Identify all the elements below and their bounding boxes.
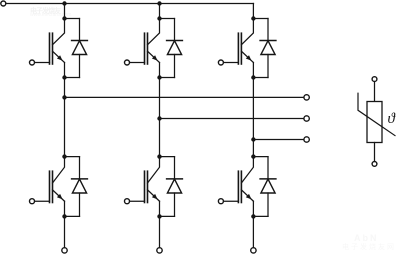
junction: phase W tap: [251, 137, 255, 141]
transistor Q5 (IGBT): [145, 171, 160, 202]
wire: phase drop, phase 1 mid: [64, 78, 66, 157]
diode D6: [260, 157, 276, 217]
wire: diode D4 cathode jog: [65, 156, 80, 158]
wire: emitter lead of Q3: [252, 63, 254, 78]
transistor Q2 (IGBT): [145, 33, 160, 64]
terminal: P (DC+ input): [1, 1, 6, 6]
junction: emitter node, phase 2 top: [157, 75, 161, 79]
wire: gate lead G2: [130, 62, 145, 64]
junction: collector node, phase 3 top: [251, 16, 255, 20]
wire: collector lead into Q5: [148, 157, 160, 183]
wire: collector drop from DC+ rail, phase 2: [159, 4, 161, 19]
junction: emitter node, phase 1 top: [62, 75, 66, 79]
terminal: gate G4: [30, 199, 35, 204]
wire: phase drop, phase 2 mid: [159, 78, 161, 157]
wire: phase drop, phase 3 mid: [252, 78, 254, 157]
wire: diode D2 cathode jog: [160, 18, 175, 20]
wire: collector lead into Q3: [241, 19, 253, 45]
wire: emitter drop to terminal N2: [159, 216, 161, 248]
thermistor RT1 (temperature dependent resistor): [358, 93, 395, 142]
wire: emitter drop to terminal N1: [64, 216, 66, 248]
wire: collector lead into Q1: [53, 19, 65, 45]
terminal: N2 (bottom emitter): [157, 248, 162, 253]
wire: emitter drop to terminal N3: [252, 216, 254, 248]
terminal: W output: [304, 137, 309, 142]
diode D5: [167, 157, 183, 217]
terminal: gate G1: [30, 60, 35, 65]
terminal: thermistor bottom: [372, 162, 377, 167]
junction: DC+ rail tap, phase 1: [62, 1, 66, 5]
junction: collector node, phase 2 bottom: [157, 154, 161, 158]
diode D2: [167, 19, 183, 78]
junction: collector node, phase 1 bottom: [62, 154, 66, 158]
junction: collector node, phase 3 bottom: [251, 154, 255, 158]
wire: phase W output line: [253, 139, 304, 141]
wire: DC+ rail: [6, 3, 254, 5]
wire: gate lead G5: [130, 200, 145, 202]
terminal: U output: [304, 95, 309, 100]
junction: collector node, phase 2 top: [157, 16, 161, 20]
wire: diode D1 anode jog: [65, 77, 80, 79]
wire: emitter lead of Q6: [252, 201, 254, 216]
transistor Q1 (IGBT): [50, 33, 65, 64]
junction: emitter node, phase 3 top: [251, 75, 255, 79]
wire: diode D3 anode jog: [253, 77, 268, 79]
terminal: gate G3: [218, 60, 223, 65]
wire: phase U output line: [65, 96, 305, 98]
wire: emitter lead of Q5: [159, 201, 161, 216]
wire: collector lead into Q2: [148, 19, 160, 45]
terminal: gate G6: [218, 199, 223, 204]
svg-text:ϑ: ϑ: [388, 111, 397, 127]
wire: gate lead G6: [223, 200, 238, 202]
wire: collector drop from DC+ rail, phase 3: [252, 4, 254, 19]
wire: gate lead G1: [35, 62, 50, 64]
wire: collector lead into Q4: [53, 157, 65, 183]
wire: emitter lead of Q1: [64, 63, 66, 78]
terminal: N1 (bottom emitter): [62, 248, 67, 253]
transistor Q6 (IGBT): [238, 171, 253, 202]
junction: DC+ rail tap, phase 2: [157, 1, 161, 5]
wire: diode D6 anode jog: [253, 215, 268, 217]
wire: diode D3 cathode jog: [253, 18, 268, 20]
wire: thermistor bottom lead: [374, 143, 376, 162]
terminal: thermistor top: [372, 77, 377, 82]
wire: diode D1 cathode jog: [65, 18, 80, 20]
wire: diode D2 anode jog: [160, 77, 175, 79]
wire: thermistor top lead: [374, 82, 376, 102]
wire: phase V output line: [160, 118, 305, 120]
wire: gate lead G4: [35, 200, 50, 202]
junction: emitter node, phase 3 bottom: [251, 214, 255, 218]
wire: emitter lead of Q4: [64, 201, 66, 216]
junction: emitter node, phase 2 bottom: [157, 214, 161, 218]
junction: emitter node, phase 1 bottom: [62, 214, 66, 218]
junction: collector node, phase 1 top: [62, 16, 66, 20]
diode D4: [72, 157, 88, 217]
terminal: gate G5: [125, 199, 130, 204]
wire: diode D5 anode jog: [160, 215, 175, 217]
wire: collector drop from DC+ rail, phase 1: [64, 4, 66, 19]
wire: diode D6 cathode jog: [253, 156, 268, 158]
transistor Q4 (IGBT): [50, 171, 65, 202]
terminal: V output: [304, 116, 309, 121]
junction: phase V tap: [157, 116, 161, 120]
wire: collector lead into Q6: [241, 157, 253, 183]
wire: diode D5 cathode jog: [160, 156, 175, 158]
terminal: gate G2: [125, 60, 130, 65]
wire: emitter lead of Q2: [159, 63, 161, 78]
wire: diode D4 anode jog: [65, 215, 80, 217]
junction: phase U tap: [62, 95, 66, 99]
terminal: N3 (bottom emitter): [251, 248, 256, 253]
wire: gate lead G3: [223, 62, 238, 64]
diode D1: [72, 19, 88, 78]
transistor Q3 (IGBT): [238, 33, 253, 64]
diode D3: [260, 19, 276, 78]
